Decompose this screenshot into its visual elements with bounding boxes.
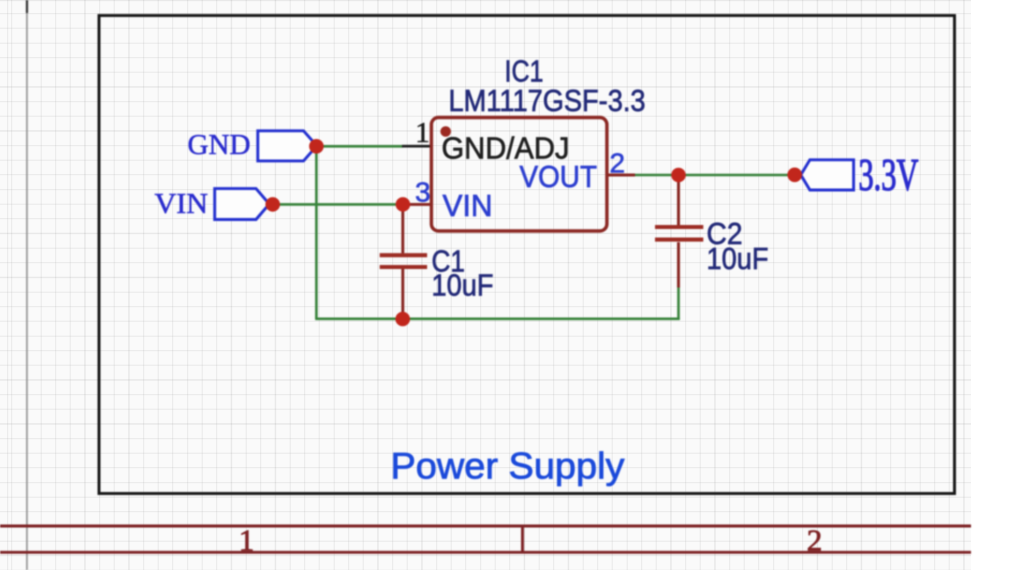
svg-text:VIN: VIN: [155, 188, 209, 220]
svg-text:10uF: 10uF: [432, 268, 494, 303]
svg-text:1: 1: [415, 117, 430, 149]
svg-text:2: 2: [807, 523, 823, 558]
svg-text:Power Supply: Power Supply: [391, 445, 625, 487]
svg-text:3.3V: 3.3V: [859, 151, 919, 200]
svg-text:3: 3: [415, 176, 431, 207]
svg-text:10uF: 10uF: [707, 241, 769, 276]
svg-text:VIN: VIN: [443, 188, 493, 223]
svg-text:2: 2: [610, 148, 626, 179]
svg-text:GND: GND: [188, 129, 251, 161]
svg-text:VOUT: VOUT: [520, 159, 598, 194]
svg-text:LM1117GSF-3.3: LM1117GSF-3.3: [449, 83, 646, 118]
svg-text:1: 1: [239, 523, 255, 558]
